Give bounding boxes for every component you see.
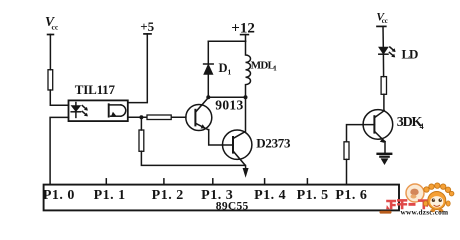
Q2 emitter arrow <box>243 168 249 178</box>
Q2 emitter lead <box>233 151 245 170</box>
wire R4 to Q3 collector <box>383 94 385 110</box>
svg-text:9013: 9013 <box>215 98 243 113</box>
svg-text:www.dzsc.com: www.dzsc.com <box>401 207 449 216</box>
svg-text:LD: LD <box>402 46 418 61</box>
svg-text:P1. 0: P1. 0 <box>43 188 75 203</box>
Q1 emitter arrow <box>201 124 206 128</box>
wire D1 branch upper <box>207 41 209 64</box>
MDL1 label <box>251 59 277 72</box>
svg-text:P1. 1: P1. 1 <box>94 188 126 203</box>
wire Vcc to R1 <box>49 35 51 70</box>
wire R1 to opto pin1 <box>50 90 68 105</box>
Q1 collector lead <box>196 97 209 111</box>
svg-text:D: D <box>219 61 228 75</box>
watermark url swoosh <box>380 211 392 214</box>
Q2 base lead <box>223 144 233 146</box>
wire opto emitter to Q1 base <box>128 116 186 118</box>
wire Q3 emitter to ground <box>384 142 386 153</box>
wire LED to R4 <box>382 54 384 76</box>
Q2 base bar <box>232 137 234 153</box>
svg-text:cc: cc <box>52 22 59 31</box>
wire Q3 base to R5 <box>347 125 375 142</box>
wire opto pin2 to P1.0 <box>50 117 68 184</box>
IC port box 89C55 <box>44 185 399 211</box>
svg-text:89C55: 89C55 <box>216 200 249 212</box>
Vcc right terminal bar <box>377 25 386 27</box>
node rail-right junction dot <box>244 95 248 99</box>
D1 label <box>219 61 232 77</box>
diode D1 <box>204 64 214 74</box>
+12 terminal bar <box>241 34 249 36</box>
wire +12 down <box>245 35 247 42</box>
LED LD <box>379 47 388 54</box>
Q3 base bar <box>373 116 375 132</box>
inductor L1 MDL1 coil <box>246 41 251 97</box>
transistor Q2 body <box>223 130 252 159</box>
pin tick P1.5 <box>306 179 308 185</box>
pin tick P1.4 <box>264 179 266 185</box>
transistor Q1 body <box>186 105 212 131</box>
opto LED emission arrows <box>82 106 88 117</box>
opto phototransistor (inside U1) <box>109 104 126 117</box>
watermark mascot <box>424 183 454 212</box>
svg-text:cc: cc <box>382 18 388 25</box>
opto-coupler U1 body <box>69 100 128 121</box>
resistor R2 (horizontal) <box>147 115 171 120</box>
svg-text:P1. 6: P1. 6 <box>335 188 367 203</box>
wire top rail <box>208 40 245 42</box>
Q3 emitter lead <box>375 132 385 142</box>
ground <box>376 153 392 165</box>
opto LED (inside U1) <box>71 103 80 118</box>
resistor R4 (vertical, right) <box>381 77 386 95</box>
LED emission arrows <box>389 47 395 57</box>
svg-text:1: 1 <box>273 65 277 73</box>
Vcc terminal bar <box>48 34 54 36</box>
watermark stamp circle <box>406 184 424 202</box>
Q3 emitter arrow <box>380 138 385 143</box>
svg-text:+5: +5 <box>140 19 154 34</box>
wire rail to Q2 collector <box>234 97 246 138</box>
svg-text:1: 1 <box>228 68 232 77</box>
svg-text:D2373: D2373 <box>256 136 291 151</box>
wire D1 branch lower <box>207 74 209 97</box>
power Vcc (right) <box>376 11 387 25</box>
svg-text:P1. 5: P1. 5 <box>297 188 329 203</box>
wire R5 to P1.6 <box>346 159 348 184</box>
+5 terminal bar <box>144 33 151 35</box>
Q3 collector lead <box>375 111 385 118</box>
node A junction dot <box>139 115 143 119</box>
watermark text 维库一下 (stylized strokes) <box>386 199 429 209</box>
wire bottom rail <box>208 96 245 98</box>
svg-text:TIL117: TIL117 <box>75 82 116 97</box>
pin tick P1.2 <box>163 179 165 185</box>
svg-text:MDL: MDL <box>251 59 275 71</box>
svg-text:4: 4 <box>420 122 424 131</box>
svg-text:P1. 4: P1. 4 <box>254 188 286 203</box>
transistor Q3 3DK4 label <box>397 115 424 131</box>
wire Q1 emitter to Q2 base <box>209 130 223 145</box>
power Vcc (left) <box>45 14 59 31</box>
pin tick P1.1 <box>105 179 107 185</box>
node rail-left junction dot <box>206 95 210 99</box>
wire opto collector to +5 <box>128 34 148 103</box>
wire Vcc to LED <box>382 26 384 46</box>
resistor R1 (vertical, left) <box>48 70 53 90</box>
transistor Q3 body <box>363 110 393 140</box>
svg-text:P1. 2: P1. 2 <box>152 188 184 203</box>
pin tick P1.3 <box>212 179 214 185</box>
resistor R5 (vertical) <box>344 142 349 160</box>
wire R3 to emitter return <box>141 151 245 165</box>
resistor R3 (vertical) <box>139 130 144 151</box>
wire node A down to R3 <box>140 117 142 130</box>
Q1 base bar <box>194 110 196 126</box>
port labels <box>43 188 368 203</box>
Q1 emitter lead <box>196 123 209 130</box>
